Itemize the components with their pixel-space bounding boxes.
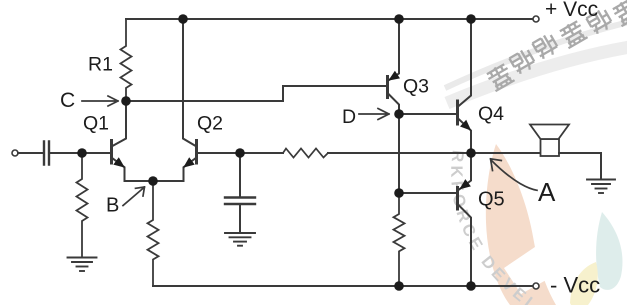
svg-text:R1: R1	[88, 54, 113, 76]
wire: Q2 base to output node	[197, 152, 284, 154]
wire: -Vcc bottom rail	[153, 285, 533, 287]
resistor (input bias, below Q1 base)	[77, 153, 88, 257]
svg-text:Q4: Q4	[478, 103, 504, 125]
node: top rail / Q4 collector	[466, 14, 476, 24]
capacitor C2 (Q2 base bypass)	[239, 153, 241, 197]
ground (C2)	[225, 233, 255, 246]
+Vcc terminal	[533, 16, 539, 22]
ground (input)	[68, 258, 97, 272]
node B junction and emitter resistor	[148, 181, 159, 286]
node C	[121, 96, 131, 106]
ground (speaker)	[587, 180, 615, 194]
svg-text:B: B	[106, 195, 119, 217]
node B	[148, 176, 158, 186]
arrow for label A	[491, 159, 538, 191]
wire: Q5 base	[399, 192, 456, 194]
input terminal	[12, 150, 18, 156]
transistor Q5	[456, 188, 459, 210]
resistor R1	[121, 19, 132, 101]
wire: input to capacitor	[18, 152, 43, 154]
svg-text:+ Vcc: + Vcc	[545, 0, 598, 21]
node: Q2 base / C2	[235, 148, 245, 158]
svg-text:- Vcc: - Vcc	[550, 273, 600, 298]
resistor (bias, below node D)	[394, 193, 405, 286]
node: bottom rail / bias resistor	[394, 281, 404, 291]
-Vcc terminal	[533, 283, 539, 289]
node: output	[466, 148, 476, 158]
transistor Q2	[195, 141, 198, 164]
wire: speaker to ground	[559, 153, 601, 179]
node D	[394, 109, 404, 119]
transistor Q4	[456, 101, 459, 124]
wire: capacitor to Q1 base	[51, 152, 111, 154]
node: bottom rail / Q5 collector	[466, 281, 476, 291]
wire: node D to Q4 base	[399, 113, 456, 115]
svg-text:C: C	[60, 89, 75, 112]
resistor (series, mid)	[283, 149, 328, 158]
wire: +Vcc top rail	[126, 18, 533, 20]
svg-text:Q3: Q3	[403, 76, 429, 98]
svg-text:A: A	[538, 177, 556, 207]
svg-text:Q1: Q1	[83, 113, 109, 135]
transistor Q1	[110, 141, 113, 164]
node: top rail / Q3 emitter	[394, 14, 404, 24]
svg-text:D: D	[342, 106, 356, 128]
node: Q5 base	[394, 188, 404, 198]
speaker	[541, 139, 560, 156]
transistor Q3	[386, 77, 389, 98]
arrow for label D	[359, 109, 389, 120]
node: Q1 base	[77, 148, 87, 158]
svg-text:Q2: Q2	[197, 113, 223, 135]
capacitor C1 (input coupling)	[44, 142, 49, 165]
arrow for label C	[82, 96, 118, 106]
arrow for label B	[123, 187, 145, 206]
wire: resistor to speaker	[328, 152, 541, 154]
svg-text:Q5: Q5	[478, 189, 505, 211]
node: top rail / Q2 collector	[178, 14, 188, 24]
wire: node C to Q3 base	[126, 86, 386, 101]
wire: node D down to Q5 base node	[398, 114, 400, 193]
